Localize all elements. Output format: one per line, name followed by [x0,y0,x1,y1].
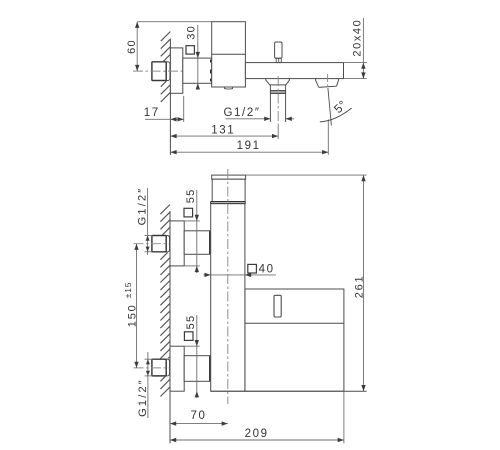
svg-text:G1/2″: G1/2″ [223,107,260,119]
5 degree arc [320,108,352,122]
svg-text:55: 55 [185,189,197,204]
body column dark ring [211,201,246,203]
body column top cap [212,175,246,179]
svg-text:G1/2″: G1/2″ [137,378,149,417]
upper escutcheon square-55 [170,221,184,266]
mixer body (side view) [212,22,246,87]
dimension 20x40 [344,62,367,64]
inlet centerline [133,70,184,72]
body divider line [212,53,246,55]
dimension 131 [170,135,278,137]
wall section line (side view) [169,39,171,156]
lower inlet fitting G1/2 (front view) [152,359,170,377]
svg-text:30: 30 [186,25,198,40]
lower connector to body [184,356,211,382]
dimension 17 [183,96,185,122]
dimension 70 [170,423,228,425]
connector between plate and body [183,58,212,83]
lower escutcheon square-55 [170,346,184,391]
wall section line (front view) [169,211,171,443]
shower outlet centerline [277,76,279,124]
diverter knob on spout [275,42,282,58]
svg-text:191: 191 [237,140,261,152]
shower hose outlet pipe [269,85,271,122]
wall hatching (side view) [161,32,171,102]
dimension square-55 lower [196,315,198,398]
body column centerline [227,169,229,404]
svg-text:60: 60 [126,39,138,54]
label square-30 [186,46,194,54]
svg-text:G1/2″: G1/2″ [137,187,149,226]
dimension square-30 line [197,25,199,87]
water stream line 5 deg [328,88,332,126]
dimension G1/2 lower [147,352,149,418]
hose coupling band [270,90,285,92]
svg-text:131: 131 [211,125,235,137]
body column (front view) [211,204,245,392]
tub spout outlet [316,79,339,88]
svg-text:17: 17 [144,107,160,119]
shower hose outlet flange [266,79,290,85]
wall hatching (front view) [160,205,170,397]
svg-text:209: 209 [245,428,269,440]
dimension square-55 upper [196,190,198,273]
tub outlet centerline [327,74,329,88]
upper connector to body [184,231,211,255]
stream extension line to 191 dim [327,120,329,155]
upper inlet fitting G1/2 (front view) [152,235,170,253]
dimension square-40 [203,274,276,276]
svg-text:70: 70 [191,410,207,422]
svg-text:261: 261 [353,275,365,299]
inlet fitting G1/2 (side view) [152,61,170,81]
dimension 261 [246,174,367,176]
label square-55 lower [184,332,193,341]
dimension 150 +/-15 [136,244,138,368]
dimension 60 vertical [137,21,212,23]
spout block (front view) [245,289,344,391]
body bottom screw detail [225,87,233,89]
dimension 191 [170,151,328,153]
dimension G1/2 upper [147,188,149,255]
label square-55 upper [184,208,193,217]
svg-text:40: 40 [259,263,275,275]
dimension G1/2 pipe [226,118,271,120]
svg-text:55: 55 [185,315,197,330]
spout tube (side view) [245,63,343,79]
svg-text:150: 150 [126,303,138,327]
svg-text:±15: ±15 [123,282,133,299]
dimension 209 [343,391,345,443]
spout block divider [245,322,344,324]
lower inlet centerline [134,367,175,369]
svg-text:20x40: 20x40 [351,19,363,57]
upper inlet centerline [134,243,175,245]
handle lever slot [274,295,281,317]
wall plate / escutcheon (side view) [170,48,182,93]
label square-40 [248,264,257,273]
